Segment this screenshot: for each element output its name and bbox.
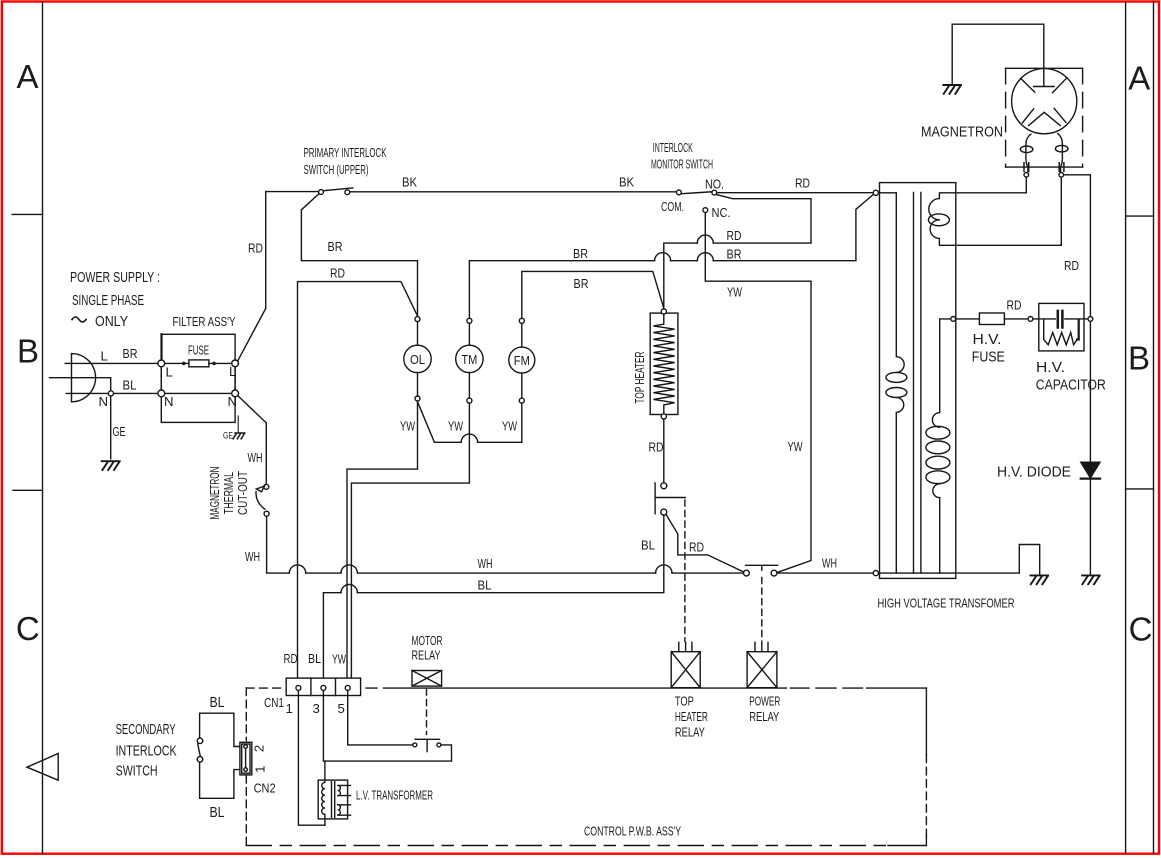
magnetron filament lead right [1055,134,1068,173]
label HV CAPACITOR [1036,359,1106,394]
svg-text:RELAY: RELAY [412,648,441,663]
label WH low left [245,549,260,564]
zone label A right [1128,60,1150,97]
svg-text:WH: WH [245,549,260,564]
svg-text:SWITCH (UPPER): SWITCH (UPPER) [304,162,369,177]
wire BL secondary switch top [200,713,244,746]
wire RD NO branch to top heater [664,195,811,309]
hv fuse F2 [979,313,1004,325]
secondary interlock switch S3 [197,738,203,762]
svg-text:RELAY: RELAY [675,725,705,740]
svg-text:POWER: POWER [749,694,780,709]
label L filter left [166,365,173,380]
connector CN1 [286,678,360,695]
ac sine symbol [72,317,86,322]
label FUSE [188,343,209,358]
svg-text:FUSE: FUSE [972,349,1005,366]
magnetron filament lead left [1020,134,1033,172]
wire RD filter to primary interlock [238,192,266,361]
wire L brown from plug [65,362,158,364]
terminal capacitor right [1088,317,1093,322]
svg-text:SINGLE PHASE: SINGLE PHASE [72,292,144,309]
zone label B left [17,333,39,370]
label YW 2 [448,419,463,434]
label GE [113,424,126,439]
terminal L in [158,360,165,367]
svg-text:N: N [164,394,174,409]
wire antenna ground [952,24,1044,86]
filter internal N line [165,392,232,394]
svg-text:1: 1 [253,766,268,773]
wire RD heater to relay contact [663,420,665,483]
wire YW TM to CN1 pin5 [348,404,469,686]
label HIGH VOLTAGE TRANSFOMER [878,596,1015,611]
svg-text:HEATER: HEATER [675,709,708,724]
svg-text:RD: RD [649,440,664,455]
svg-text:YW: YW [400,419,415,434]
label YW 1 [400,419,415,434]
pin number 1 cn2 [253,766,268,773]
wire WH cutout to power relay [267,516,744,573]
svg-text:TOP: TOP [675,694,694,709]
wire BL secondary switch bottom [200,762,244,798]
wire RD to primary interlock [266,191,318,193]
transformer filament winding [928,177,1061,245]
svg-text:ONLY: ONLY [95,313,128,330]
motor relay coil [412,671,442,687]
hop YW over TM wire [461,434,477,442]
label MOTOR RELAY [412,633,443,663]
pin number 3 [313,701,320,716]
svg-text:YW: YW [788,439,803,454]
svg-text:BL: BL [210,694,225,711]
wire YW pin5 to motor contact [348,691,413,745]
power supply label [70,269,160,330]
label RD mid [727,228,742,243]
svg-text:C: C [16,610,40,647]
hv diode D1 [1081,462,1100,574]
zone label C right [1129,611,1153,648]
svg-text:B: B [1128,340,1150,377]
svg-text:RD: RD [330,266,345,281]
label CN2 [254,781,276,796]
border zone tick left AB [12,213,42,215]
wire BL pin3 to motor contact [323,691,451,761]
label HV FUSE [972,331,1005,366]
junction GE-BL [108,391,113,396]
ground plug earth [102,461,120,470]
svg-text:MAGNETRON: MAGNETRON [921,124,1003,141]
magnetron V1 [1012,69,1077,134]
svg-text:B: B [17,333,39,370]
svg-text:2: 2 [252,745,267,752]
label COM [661,199,684,214]
magnetron thermal cutout [256,484,269,516]
ground hv diode [1082,575,1100,584]
label TOP HEATER vertical [632,352,647,404]
label OL [410,352,425,367]
svg-text:INTERLOCK: INTERLOCK [653,140,693,155]
dashed link top heater relay [684,500,686,642]
label RD top [795,176,810,191]
top heater resistor [650,309,678,419]
svg-text:PRIMARY INTERLOCK: PRIMARY INTERLOCK [304,145,387,160]
svg-text:CN2: CN2 [254,781,276,796]
label NO [705,177,724,192]
wire GE green earth [49,378,110,459]
svg-text:BR: BR [328,239,343,254]
svg-text:L: L [101,349,108,364]
transformer primary winding [879,193,907,573]
svg-text:POWER SUPPLY :: POWER SUPPLY : [70,269,160,286]
svg-text:H.V. DIODE: H.V. DIODE [997,464,1071,481]
wire RD filament to capacitor [1064,175,1091,463]
junction transformer top [873,190,878,195]
transformer hv winding [926,319,951,573]
ground transformer [1031,575,1049,584]
border column line left [42,2,44,854]
zone label B right [1128,340,1150,377]
label N filter left [164,394,174,409]
svg-text:GE: GE [223,431,233,442]
svg-text:BK: BK [402,175,417,190]
terminal filament right [1059,173,1064,178]
svg-text:BL: BL [210,804,225,821]
hv capacitor C1 [1033,303,1088,351]
ground filter earth [233,416,245,439]
wire N blue from plug [66,392,158,394]
svg-text:L: L [166,365,173,380]
junction hv fuse left [951,317,956,322]
svg-text:BR: BR [574,276,589,291]
pin number 2 cn2 [252,745,267,752]
label RD riser [248,241,263,256]
hop RD over NC wire [697,235,713,243]
label L filter right [229,364,236,379]
timer motor TM [456,318,483,403]
svg-text:RD: RD [248,241,263,256]
svg-text:SECONDARY: SECONDARY [116,721,176,738]
transformer core [914,192,921,573]
ground magnetron [943,85,961,94]
wire BL contact to CN1 pin3 [323,515,663,685]
fuse F1 [165,360,232,367]
wire RD hv fuse row [956,318,1028,320]
interlock monitor switch label [651,140,713,172]
label N filter right [228,394,238,409]
svg-text:L: L [229,364,236,379]
svg-text:YW: YW [502,419,517,434]
svg-text:MOTOR: MOTOR [412,633,443,648]
hop WH over BL wire [656,565,672,573]
label BL plug [123,378,137,393]
primary interlock switch label [304,145,387,177]
svg-text:BR: BR [727,247,742,262]
top heater relay contact [655,483,685,515]
label BR left [328,239,343,254]
svg-text:INTERLOCK: INTERLOCK [116,743,177,760]
svg-text:WH: WH [478,556,493,571]
svg-text:NO.: NO. [705,177,724,192]
border zone tick right AB [1126,215,1154,217]
svg-text:N: N [228,394,238,409]
label HV DIODE [997,464,1071,481]
label GE filter [223,431,233,442]
label SECONDARY INTERLOCK SWITCH [116,721,177,780]
svg-text:COM.: COM. [661,199,684,214]
interlock monitor switch S2 [677,190,717,213]
label RD lower [689,540,704,555]
label BR mid2 [727,247,742,262]
fan motor FM [509,318,535,403]
svg-text:CONTROL P.W.B. ASS'Y: CONTROL P.W.B. ASS'Y [584,824,681,839]
wire BR primary interlock down [301,194,417,316]
control pwb box dashed left edge [245,688,247,846]
control pwb box top edge [246,687,926,689]
label BK left [402,175,417,190]
zone label A left [16,58,38,95]
label BL cn1pin [308,651,321,666]
hop BR over RD heater wire [655,253,671,261]
svg-text:BK: BK [619,175,634,190]
svg-text:WH: WH [822,556,837,571]
label BL lower [641,538,655,553]
svg-text:1: 1 [286,701,293,716]
label RD horizontal [330,266,345,281]
overload OL [404,317,431,401]
wire YW OL to CN1 pin5 [347,402,418,688]
label TM [461,352,477,367]
terminal L out [232,360,239,367]
svg-text:SWITCH: SWITCH [116,763,158,780]
label WH mid [478,556,493,571]
hop BL over YW wires [341,585,357,593]
svg-text:3: 3 [313,701,320,716]
filter assembly label [173,314,236,329]
terminal N in [158,390,165,397]
filter internal dashed links [161,368,235,390]
wire WH transformer bottom to ground [879,545,1040,575]
connector CN2 [240,742,252,775]
wire RD contact to power relay contact [666,515,743,572]
high voltage transformer T1 box [880,183,956,579]
label YW riser [788,439,803,454]
label YW 3 [502,419,517,434]
border zone tick left BC [13,489,43,491]
svg-text:YW: YW [727,285,742,300]
terminal capacitor left [1028,317,1033,322]
label RD cn1 [284,651,298,666]
label BL cn1 [478,578,492,593]
label RD heater [649,440,664,455]
label BK right [619,175,634,190]
wire RD NO to transformer junction [717,192,873,194]
svg-text:BR: BR [573,246,588,261]
wire WH filter to thermal cutout [238,396,266,483]
label WH right [822,556,837,571]
top heater relay coil [671,642,700,687]
power relay contact [744,565,778,576]
label NC [712,205,731,220]
svg-text:RD: RD [727,228,742,243]
svg-text:GE: GE [113,424,126,439]
label CN1 [264,695,284,710]
wire RD horizontal to OL [298,282,418,685]
svg-text:L.V. TRANSFORMER: L.V. TRANSFORMER [356,788,433,803]
label L plug [101,349,108,364]
svg-text:MONITOR SWITCH: MONITOR SWITCH [651,157,713,172]
svg-text:A: A [16,58,38,95]
wire WH power relay to transformer [777,572,873,574]
svg-text:BL: BL [308,651,321,666]
svg-text:RD: RD [1064,258,1079,273]
svg-text:RELAY: RELAY [749,709,779,724]
svg-text:FUSE: FUSE [188,343,209,358]
svg-text:MAGNETRON: MAGNETRON [207,467,222,520]
border zone tick right BC [1126,488,1154,490]
lv transformer T2 [318,761,350,825]
label MAGNETRON THERMAL CUT-OUT vertical [207,467,250,520]
svg-text:YW: YW [332,652,346,667]
svg-text:TM: TM [461,352,477,367]
label WH upper [248,450,263,465]
pin number 5 [338,701,345,716]
svg-text:RD: RD [1007,298,1022,313]
zone label C left [16,610,40,647]
label RD fuse [1007,298,1022,313]
svg-text:RD: RD [689,540,704,555]
label BR mid1 [573,246,588,261]
label YW nc [727,285,742,300]
svg-text:N: N [99,394,109,409]
svg-text:OL: OL [410,352,425,367]
svg-text:A: A [1128,60,1150,97]
wire RD pin1 to lv transformer [298,691,325,825]
label CONTROL PWB ASSY [584,824,681,839]
label BL cn2 bottom [210,804,225,821]
label POWER RELAY [749,694,780,725]
svg-text:CAPACITOR: CAPACITOR [1036,377,1106,394]
label LV TRANSFORMER [356,788,433,803]
center fold marker triangle [27,754,58,781]
label BR plug [123,346,138,361]
terminal filament left [1024,173,1029,178]
wire YW NC down and right [705,213,811,572]
hop WH over YW wires [341,565,357,573]
label BL cn2 top [210,694,225,711]
svg-text:YW: YW [448,419,463,434]
control pwb box bottom edge [246,845,926,847]
border column lines right [1126,2,1154,854]
dashed link power relay [761,578,763,642]
label MAGNETRON [921,124,1003,141]
magnetron case box dashed [1006,68,1083,167]
wire BR FM to top heater [522,271,664,317]
label YW cn1pin [332,652,346,667]
junction transformer bottom [873,571,878,576]
filter assembly box [161,334,235,422]
terminal N out [232,390,239,397]
svg-text:NC.: NC. [712,205,731,220]
label FM [514,353,530,368]
hop BR over NC wire [697,253,713,261]
power relay coil [747,642,777,687]
svg-text:CN1: CN1 [264,695,284,710]
svg-text:BR: BR [123,346,138,361]
wire BK primary to monitor [351,191,676,193]
label RD right [1064,258,1079,273]
svg-text:BL: BL [478,578,492,593]
svg-text:HIGH VOLTAGE TRANSFOMER: HIGH VOLTAGE TRANSFOMER [878,596,1015,611]
svg-text:FILTER ASS'Y: FILTER ASS'Y [173,314,236,329]
svg-text:THERMAL: THERMAL [221,472,236,514]
hop WH over RD wire [289,565,305,573]
primary interlock switch S1 [319,188,353,195]
svg-text:WH: WH [248,450,263,465]
label N plug [99,394,109,409]
svg-text:RD: RD [284,651,298,666]
svg-text:H.V.: H.V. [973,331,1002,348]
svg-text:BL: BL [641,538,655,553]
pin number 1 [286,701,293,716]
label TOP HEATER RELAY [675,694,708,740]
plug P1 [72,354,96,402]
svg-text:BL: BL [123,378,137,393]
control pwb box right edge [925,688,927,845]
svg-text:CUT-OUT: CUT-OUT [235,471,250,515]
dashed link motor relay [426,689,428,734]
svg-text:TOP HEATER: TOP HEATER [632,352,647,404]
svg-text:C: C [1129,611,1153,648]
svg-text:FM: FM [514,353,530,368]
label BR fm [574,276,589,291]
svg-text:5: 5 [338,701,345,716]
motor relay contact [413,739,441,751]
svg-text:H.V.: H.V. [1036,359,1065,376]
svg-text:RD: RD [795,176,810,191]
wire YW OL to FM [418,402,522,443]
wire BR TM to monitor riser [469,195,873,318]
